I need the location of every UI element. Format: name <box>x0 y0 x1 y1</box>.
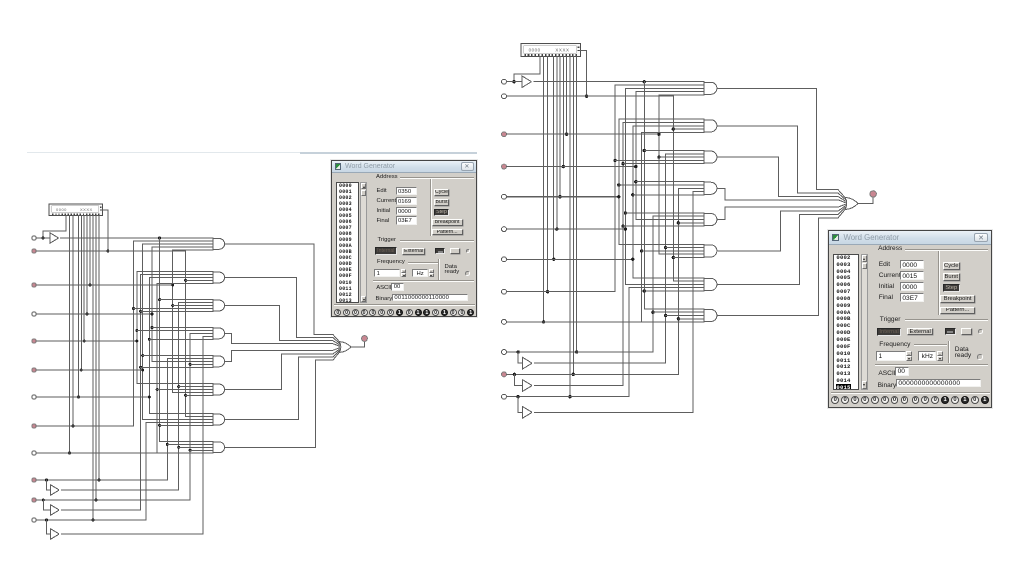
junction F12 whisker tap <box>672 127 675 130</box>
wire gate G2 output to summing gate <box>225 278 340 344</box>
Frequency group <box>377 259 405 265</box>
junction <box>568 395 571 398</box>
junction clock/buffer input <box>42 237 45 240</box>
junction r12 buffer drop <box>516 395 519 398</box>
junction <box>72 425 75 428</box>
AND gate G5 <box>141 356 225 368</box>
junction F6 source tap <box>634 165 637 168</box>
junction <box>98 479 101 482</box>
input terminal r6 (open) <box>502 227 507 232</box>
wire feed vertical F13 (signal r11) x=190.1 <box>677 188 679 374</box>
wire gate G5 output to summing gate <box>225 348 340 362</box>
AND gate G6 <box>137 384 225 396</box>
input terminal r9 (open) <box>502 319 507 324</box>
AND gate G6 <box>619 244 717 257</box>
wire feed vertical F10 (signal r3) x=172.7 <box>172 250 174 393</box>
junction side wire r2 <box>106 250 109 253</box>
input terminal r5 (red) <box>32 339 36 343</box>
wire feed vertical F7 (signal r9) x=157.2 <box>641 132 643 321</box>
wire gate G7 output to summing gate <box>225 351 340 420</box>
wire feed vertical F4 (signal r6) x=142.7 <box>624 88 626 284</box>
wire word-gen pin drop x=87.1 to row r4 <box>86 216 88 315</box>
junction F1 whisker tap <box>613 159 616 162</box>
svg-text:XXXX: XXXX <box>555 47 569 52</box>
address list box <box>833 254 859 390</box>
AND gate G1 <box>615 82 717 95</box>
junction F12 whisker tap <box>672 256 675 259</box>
wire feed vertical F6 (signal r4) x=152 <box>151 247 153 362</box>
wire r1 terminal to buffer U1 <box>36 237 50 239</box>
wire feed vertical F9 (signal r10) x=167.3 <box>652 216 654 352</box>
wire word-gen pin drop x=90 to row r3 <box>566 57 568 135</box>
wire XWG1 side pin to row r2 <box>102 210 108 251</box>
summing OR gate U14 <box>845 197 858 209</box>
junction <box>555 227 558 230</box>
junction F5 whisker tap <box>148 338 151 341</box>
wire feed vertical F11 (signal b10) x=178.7 <box>665 154 667 363</box>
input terminal r8 (red) <box>32 424 36 428</box>
wire word-gen pin drop x=90 to row r3 <box>89 216 91 286</box>
summing OR gate U14 <box>339 342 351 353</box>
input terminal r3 (red) <box>502 132 507 137</box>
AND gate G7 <box>143 414 225 426</box>
junction F6 source tap <box>151 313 154 316</box>
buffer/inverter U12 <box>51 529 60 539</box>
input terminal r1 (open) <box>502 79 507 84</box>
button Step <box>434 209 449 216</box>
buffer U1 <box>50 233 59 243</box>
wire word-gen pin drop x=81.3 to row r6 <box>556 57 558 230</box>
wire row r8 <box>506 291 615 293</box>
wire feed vertical F15 (signal r12) x=146 <box>145 422 147 520</box>
wire gate G2 output to summing gate <box>717 126 845 200</box>
wire feed vertical F12 (signal r2) x=185.6 <box>185 251 187 417</box>
junction r11 buffer drop <box>42 499 45 502</box>
wire word-gen pin drop x=84.2 to row r5 <box>559 57 561 197</box>
Address group <box>878 245 902 252</box>
wire OR output to terminal <box>858 197 873 203</box>
wire XWG1 side pin to row r2 <box>580 50 587 96</box>
wire feed vertical F8 (signal b1) x=159.6 <box>159 238 161 441</box>
AND gate G8 <box>644 309 717 322</box>
Address group <box>376 174 398 180</box>
input terminal r2 (red) <box>32 249 36 253</box>
junction F3 whisker tap <box>621 224 624 227</box>
junction F10 source tap <box>657 133 660 136</box>
wire word-gen pin drop x=78.5 to row r7 <box>78 216 80 398</box>
junction <box>95 499 98 502</box>
wire word-gen pin drop x=96 to row r11 <box>572 57 574 375</box>
wire OR output to terminal <box>351 341 365 347</box>
wire word-gen pin drop x=93 to row r12 <box>569 57 571 397</box>
input terminal r6 (red) <box>32 368 36 372</box>
buffer/inverter U11 <box>523 380 533 392</box>
wire row r3 <box>506 133 658 135</box>
wire feed vertical F7 (signal r9) x=157.2 <box>156 283 158 453</box>
output terminal (red) left circuit <box>362 336 368 342</box>
junction <box>562 165 565 168</box>
wire row r10 <box>506 351 652 353</box>
input terminal r4 (red) <box>502 164 507 169</box>
wire row r7 <box>506 258 632 260</box>
junction r12 buffer drop <box>45 519 48 522</box>
junction F13 whisker tap <box>189 449 192 452</box>
junction F8 whisker tap <box>158 424 161 427</box>
wire row r12 <box>506 396 629 398</box>
AND gate G2 <box>137 272 225 284</box>
wire buffer output b11 <box>61 509 140 511</box>
wire r1 terminal to buffer U1 <box>506 81 521 83</box>
title bar <box>332 161 476 173</box>
wire r11 down to buffer input <box>513 374 515 385</box>
wire word-gen pin drop x=69.5 to row r9 <box>69 216 71 454</box>
wire buffer output b10 <box>61 489 178 491</box>
junction <box>80 369 83 372</box>
buffer/inverter U11 <box>51 505 60 515</box>
wire gate G7 output to summing gate <box>717 207 845 284</box>
button Pattern... <box>432 229 463 236</box>
junction <box>83 340 86 343</box>
wire feed vertical F5 (signal r7) x=149.3 <box>632 126 634 278</box>
wire feed vertical F12 (signal r2) x=185.6 <box>672 96 674 281</box>
wire word-gen pin drop x=84.2 to row r5 <box>83 216 85 342</box>
junction F6 whisker tap <box>151 326 154 329</box>
button Burst <box>943 273 960 281</box>
output bit LEDs <box>334 309 341 316</box>
AND gate G2 <box>619 119 717 132</box>
junction F7 whisker tap <box>156 388 159 391</box>
wire feed vertical F13 (signal r11) x=190.1 <box>189 333 191 500</box>
wire row r9 <box>506 321 703 323</box>
AND gate G5 <box>623 213 717 226</box>
input terminal r11 (red) <box>502 372 507 377</box>
junction F11 whisker tap <box>664 246 667 249</box>
Frequency group <box>879 341 910 348</box>
AND gate G8 <box>160 441 225 452</box>
wire feed vertical F2 (signal r5) x=136.8 <box>136 272 138 384</box>
ASCII field <box>376 285 391 291</box>
button Pattern... <box>940 307 975 315</box>
junction F5 whisker tap <box>631 193 634 196</box>
junction <box>92 519 95 522</box>
input terminal r8 (open) <box>502 289 507 294</box>
wire row r12 <box>36 519 146 521</box>
junction r10 buffer drop <box>516 350 519 353</box>
junction F4 source tap <box>141 369 144 372</box>
wire row r3 <box>36 284 173 286</box>
wire gate G8 output to summing gate <box>717 209 845 315</box>
wire r10 down to buffer input <box>46 480 48 490</box>
input terminal r12 (open) <box>502 394 507 399</box>
junction <box>552 258 555 261</box>
title bar <box>829 231 991 245</box>
junction r11 buffer drop <box>513 373 516 376</box>
button Breakpoint <box>432 219 463 226</box>
wire clock pin to buffer U1 input <box>514 57 540 82</box>
junction F13 whisker tap <box>677 317 680 320</box>
buffer U1 <box>522 76 532 88</box>
junction F10 whisker tap <box>657 155 660 158</box>
input terminal r12 (open) <box>32 518 36 522</box>
wire gate G6 output to summing gate <box>717 206 845 251</box>
wire buffer output b11 <box>534 385 623 387</box>
wire feed vertical F11 (signal b10) x=178.7 <box>178 303 180 490</box>
junction F11 whisker tap <box>664 314 667 317</box>
input terminal r7 (open) <box>502 257 507 262</box>
wire feed vertical F2 (signal r5) x=136.8 <box>618 119 620 244</box>
junction F8 whisker tap <box>643 289 646 292</box>
wire row r6 <box>36 369 143 371</box>
wire feed vertical F14 (signal b12) x=203 <box>202 336 204 534</box>
junction <box>89 284 92 287</box>
wire word-gen pin drop x=99 to row r10 <box>576 57 578 352</box>
junction <box>68 452 71 455</box>
svg-text:0000: 0000 <box>56 207 67 212</box>
wire row r9 <box>36 452 213 454</box>
junction F2 whisker tap <box>135 329 138 332</box>
buffer/inverter U10 <box>523 357 533 369</box>
junction F3 whisker tap <box>139 366 142 369</box>
wire row r7 <box>36 396 149 398</box>
wire r10 down to buffer input <box>517 352 519 363</box>
faint window edge line <box>27 152 477 153</box>
wire row r5 <box>36 340 137 342</box>
wire r12 down to buffer input <box>46 520 48 534</box>
word generator instrument XWG1 icon <box>49 204 103 216</box>
junction F11 whisker tap <box>177 446 180 449</box>
junction F8 tap on r1 <box>158 237 161 240</box>
wire feed vertical F1 (signal r8) x=133.5 <box>133 241 135 426</box>
Trigger group <box>378 237 396 243</box>
wire word-gen pin drop x=81.3 to row r6 <box>80 216 82 371</box>
junction F8 whisker tap <box>158 298 161 301</box>
wire feed vertical F9 (signal r10) x=167.3 <box>166 358 168 480</box>
wire row r4 <box>36 313 152 315</box>
AND gate G7 <box>625 278 716 291</box>
junction side wire r2 <box>585 95 588 98</box>
junction <box>77 396 80 399</box>
wire row r2 <box>36 250 185 252</box>
wire row r10 <box>36 479 167 481</box>
AND gate G4 <box>137 328 225 340</box>
junction F7 whisker tap <box>640 249 643 252</box>
input terminal r4 (open) <box>32 312 36 316</box>
junction F9 whisker tap <box>651 311 654 314</box>
button Cycle <box>434 189 449 196</box>
input terminal r9 (open) <box>32 451 36 455</box>
input terminal r2 (open) <box>502 94 507 99</box>
junction F13 whisker tap <box>189 363 192 366</box>
junction F2 source tap <box>617 195 620 198</box>
Word Generator instrument panel (left) <box>331 160 477 317</box>
wire buffer U1 output row r1 to gate G1 <box>61 237 213 239</box>
wire word-gen pin drop x=78.5 to row r7 <box>553 57 555 260</box>
junction <box>86 313 89 316</box>
wire feed vertical F1 (signal r8) x=133.5 <box>614 85 616 292</box>
list scrollbar <box>360 182 367 304</box>
input terminal r11 (red) <box>32 498 36 502</box>
wire word-gen pin drop x=93 to row r12 <box>92 216 94 521</box>
junction <box>572 373 575 376</box>
wire row r11 <box>506 373 678 375</box>
buffer/inverter U10 <box>51 485 60 495</box>
wire gate G8 output to summing gate <box>225 352 340 447</box>
junction F12 whisker tap <box>184 279 187 282</box>
junction F11 whisker tap <box>177 385 180 388</box>
junction F8 whisker tap <box>643 149 646 152</box>
input terminal r1 (open) <box>32 236 36 240</box>
button Cycle <box>943 262 960 270</box>
wire word-gen pin drop x=73 to row r8 <box>547 57 549 292</box>
wire feed vertical F5 (signal r7) x=149.3 <box>148 278 150 414</box>
input terminal r10 (red) <box>32 478 36 482</box>
wire word-gen pin drop x=69.5 to row r9 <box>543 57 545 322</box>
junction F5 source tap <box>631 258 634 261</box>
junction F2 whisker tap <box>617 183 620 186</box>
junction F8 tap on r1 <box>643 80 646 83</box>
wire row r6 <box>506 228 625 230</box>
junction F3 whisker tap <box>621 162 624 165</box>
right decoder circuit (scaled copy) <box>502 44 877 418</box>
Binary field <box>878 382 897 389</box>
junction F9 whisker tap <box>166 443 169 446</box>
wire feed vertical F8 (signal b1) x=159.6 <box>643 82 645 309</box>
wire row r11 <box>36 499 190 501</box>
wire word-gen pin drop x=73 to row r8 <box>72 216 74 427</box>
wire gate G3 output to summing gate <box>717 157 845 201</box>
junction F10 whisker tap <box>171 304 174 307</box>
wire clock pin to buffer U1 input <box>43 216 66 239</box>
Word Generator instrument panel (right) <box>828 230 992 408</box>
wire gate G6 output to summing gate <box>225 349 340 389</box>
button Breakpoint <box>940 295 975 303</box>
junction F10 source tap <box>171 284 174 287</box>
address list box <box>336 182 360 304</box>
list scrollbar <box>861 254 869 390</box>
junction r10 buffer drop <box>45 479 48 482</box>
junction <box>558 195 561 198</box>
wire row r4 <box>506 166 635 168</box>
junction F4 whisker tap <box>141 354 144 357</box>
AND gate G4 <box>619 182 717 195</box>
wire word-gen pin drop x=99 to row r10 <box>98 216 100 481</box>
wire buffer output b12 <box>61 533 203 535</box>
AND gate G3 <box>615 151 717 164</box>
left decoder circuit <box>32 204 368 539</box>
AND gate G1 <box>134 239 225 250</box>
wire feed vertical F10 (signal r3) x=172.7 <box>658 95 660 254</box>
output terminal (red) left circuit <box>870 191 876 197</box>
junction <box>565 133 568 136</box>
word generator instrument XWG1 icon <box>521 44 581 57</box>
Trigger group <box>880 316 901 323</box>
wire r11 down to buffer input <box>42 500 44 510</box>
svg-text:0000: 0000 <box>529 47 541 52</box>
wire buffer U1 output row r1 to gate G1 <box>534 81 704 83</box>
junction F13 whisker tap <box>677 221 680 224</box>
wire feed vertical F3 (signal b11) x=140.6 <box>140 275 142 510</box>
wire feed vertical F3 (signal b11) x=140.6 <box>622 123 624 386</box>
input terminal r3 (red) <box>32 283 36 287</box>
wire buffer output b10 <box>534 362 665 364</box>
junction F5 source tap <box>148 396 151 399</box>
junction F2 source tap <box>135 340 138 343</box>
wire gate G3 output to summing gate <box>225 306 340 345</box>
input terminal r10 (open) <box>502 350 507 355</box>
wire row r5 <box>506 196 618 198</box>
wire buffer output b12 <box>534 411 692 413</box>
wire gate G1 output to summing gate <box>225 244 340 342</box>
wire word-gen pin drop x=87.1 to row r4 <box>562 57 564 167</box>
button Step <box>943 284 960 292</box>
junction F4 whisker tap <box>624 211 627 214</box>
wire row r8 <box>36 425 133 427</box>
junction F4 source tap <box>624 227 627 230</box>
wire r12 down to buffer input <box>517 397 519 413</box>
junction F1 whisker tap <box>132 307 135 310</box>
input terminal r5 (open) <box>502 194 507 199</box>
junction clock/buffer input <box>512 80 515 83</box>
junction F6 whisker tap <box>634 180 637 183</box>
junction <box>575 350 578 353</box>
svg-text:XXXX: XXXX <box>80 207 93 212</box>
wire gate G5 output to summing gate <box>717 204 845 219</box>
junction <box>546 290 549 293</box>
buffer/inverter U12 <box>523 407 533 419</box>
wire row r2 <box>506 95 673 97</box>
wire gate G4 output to summing gate <box>225 333 340 346</box>
junction <box>542 320 545 323</box>
button Burst <box>434 199 449 206</box>
wire feed vertical F6 (signal r4) x=152 <box>635 92 637 220</box>
output bit LEDs <box>831 396 839 404</box>
wire feed vertical F14 (signal b12) x=203 <box>692 192 694 413</box>
wire gate G4 output to summing gate <box>717 188 845 202</box>
wire word-gen pin drop x=96 to row r11 <box>95 216 97 501</box>
wire feed vertical F15 (signal r12) x=146 <box>628 288 630 397</box>
input terminal r7 (open) <box>32 395 36 399</box>
wire gate G1 output to summing gate <box>717 88 845 198</box>
AND gate G3 <box>134 300 225 312</box>
ASCII field <box>878 370 895 377</box>
junction F12 whisker tap <box>184 394 187 397</box>
wire feed vertical F4 (signal r6) x=142.7 <box>142 244 144 420</box>
Binary field <box>376 296 393 302</box>
junction F3 whisker tap <box>139 310 142 313</box>
